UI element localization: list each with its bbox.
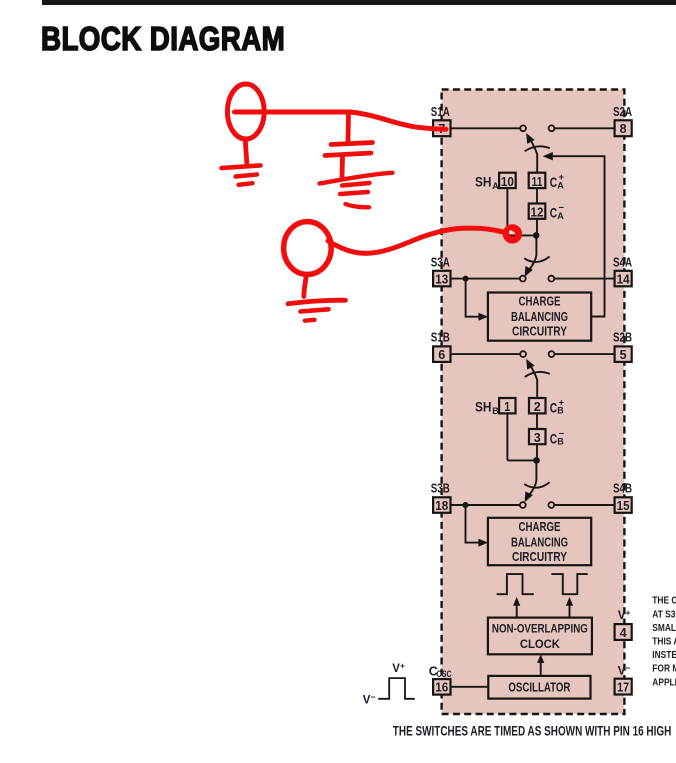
svg-text:CLOCK: CLOCK (520, 637, 560, 651)
svg-text:OSCILLATOR: OSCILLATOR (508, 681, 570, 695)
svg-text:S1A: S1A (431, 105, 450, 119)
svg-text:SMALL: SMALL (652, 622, 676, 633)
svg-text:V+: V+ (618, 608, 631, 623)
svg-text:1: 1 (504, 399, 510, 414)
svg-text:S2A: S2A (613, 105, 632, 119)
svg-text:16: 16 (435, 680, 448, 695)
svg-text:18: 18 (435, 498, 448, 513)
svg-text:15: 15 (617, 498, 630, 513)
svg-text:10: 10 (501, 174, 514, 189)
svg-text:S3A: S3A (431, 255, 450, 269)
svg-text:2: 2 (534, 399, 541, 414)
svg-text:FOR M: FOR M (652, 663, 676, 674)
svg-text:CIRCUITRY: CIRCUITRY (512, 325, 568, 339)
svg-text:S2B: S2B (613, 331, 632, 345)
svg-text:NON-OVERLAPPING: NON-OVERLAPPING (492, 621, 588, 635)
svg-text:CHARGE: CHARGE (519, 295, 561, 309)
svg-text:V−: V− (363, 692, 376, 707)
svg-text:14: 14 (617, 271, 631, 286)
svg-text:3: 3 (534, 430, 541, 445)
svg-text:13: 13 (435, 271, 448, 286)
svg-text:+: + (559, 397, 565, 408)
svg-text:THE CH: THE CH (652, 595, 676, 606)
svg-text:V+: V+ (392, 661, 405, 676)
svg-text:V−: V− (618, 663, 631, 678)
svg-text:12: 12 (531, 204, 544, 219)
svg-text:8: 8 (620, 121, 627, 136)
svg-text:−: − (559, 203, 565, 214)
svg-text:S1B: S1B (431, 331, 450, 345)
svg-text:A: A (492, 181, 499, 191)
svg-text:INSTEA: INSTEA (652, 649, 676, 660)
svg-text:−: − (559, 429, 565, 440)
svg-text:THIS A: THIS A (652, 636, 676, 647)
svg-text:S3B: S3B (431, 482, 450, 496)
svg-text:11: 11 (532, 174, 543, 189)
svg-text:S4B: S4B (613, 482, 632, 496)
svg-text:AT S3 A: AT S3 A (652, 609, 676, 620)
svg-text:SH: SH (475, 175, 492, 190)
svg-text:OSC: OSC (437, 669, 452, 679)
svg-text:THE SWITCHES ARE TIMED AS SHOW: THE SWITCHES ARE TIMED AS SHOWN WITH PIN… (393, 722, 672, 738)
svg-text:4: 4 (620, 625, 628, 640)
svg-text:17: 17 (617, 679, 629, 694)
svg-text:5: 5 (620, 347, 627, 362)
svg-text:CHARGE: CHARGE (519, 520, 561, 534)
svg-text:SH: SH (475, 400, 492, 415)
svg-text:BALANCING: BALANCING (511, 310, 568, 324)
svg-text:APPLIC: APPLIC (652, 677, 676, 688)
svg-text:6: 6 (438, 347, 445, 362)
svg-text:BALANCING: BALANCING (511, 535, 568, 549)
svg-text:S4A: S4A (613, 255, 632, 269)
svg-text:+: + (559, 172, 565, 183)
svg-text:B: B (492, 406, 499, 416)
svg-text:CIRCUITRY: CIRCUITRY (512, 550, 568, 564)
